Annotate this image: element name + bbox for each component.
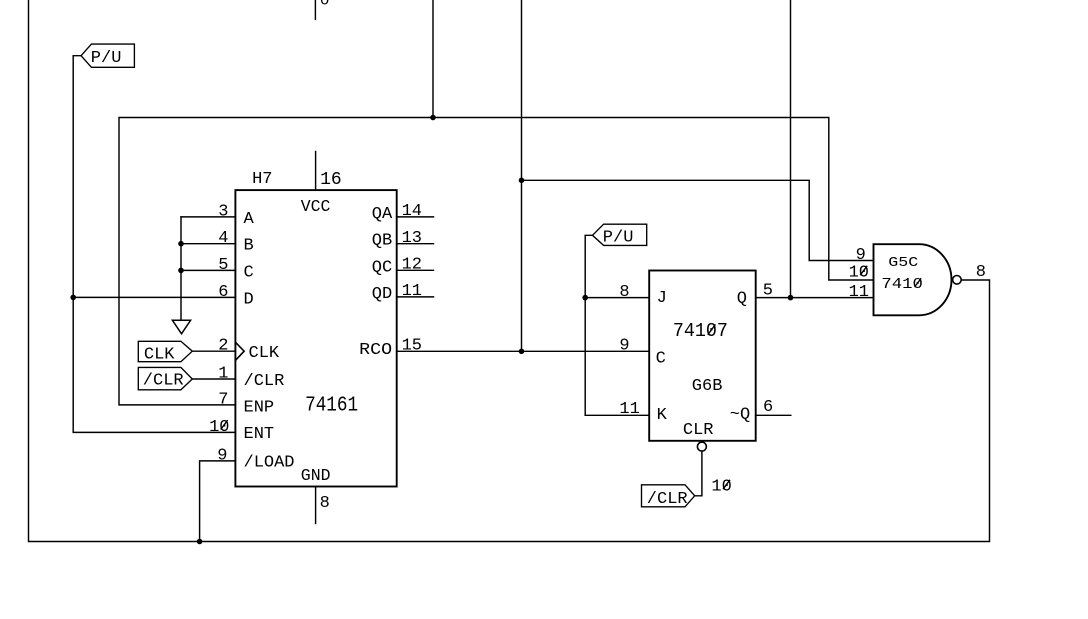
junction dot Q tap: [788, 295, 794, 301]
svg-text:G5C: G5C: [888, 255, 918, 271]
junction dot RCO: [519, 349, 525, 355]
svg-text:P/U: P/U: [603, 228, 634, 247]
svg-text:K: K: [657, 406, 668, 425]
junction dot LOAD rail: [197, 539, 203, 545]
svg-text:H7: H7: [252, 170, 272, 189]
U1 ENT pin 10 zero slash: [221, 420, 228, 429]
svg-text:QD: QD: [372, 285, 392, 304]
svg-text:GND: GND: [301, 466, 331, 485]
G5C zero slash: [915, 278, 922, 287]
svg-text:6: 6: [763, 398, 773, 417]
junction dot B tie: [178, 241, 184, 247]
wire QB pin 13: [397, 243, 434, 245]
svg-text:74161: 74161: [305, 394, 358, 417]
svg-text:12: 12: [402, 256, 422, 275]
wire GND pin 8: [315, 487, 317, 524]
svg-text:8: 8: [976, 263, 986, 282]
wire QD pin 11: [397, 296, 434, 298]
svg-text:8: 8: [320, 494, 330, 513]
wire P/U 2 net J and K: [585, 235, 592, 415]
svg-text:14: 14: [402, 202, 422, 221]
svg-text:6: 6: [218, 283, 228, 302]
flag P/U 2: [593, 224, 647, 245]
svg-text:C: C: [656, 350, 666, 369]
svg-text:15: 15: [402, 337, 422, 356]
svg-text:CLK: CLK: [249, 344, 280, 363]
junction dot C tie: [178, 268, 184, 274]
NAND output bubble: [953, 276, 962, 285]
wire A-B-C tie vertical: [180, 217, 182, 320]
U2 zero slash: [708, 324, 716, 334]
wire vertical to RCO net: [521, 0, 523, 351]
svg-text:11: 11: [402, 282, 422, 301]
G5C pin 10 zero slash: [860, 266, 867, 275]
wire P/U net to ENT: [73, 56, 235, 433]
wire /LOAD to bottom rail: [200, 461, 236, 542]
svg-text:QB: QB: [372, 232, 392, 251]
junction dot J tap: [582, 295, 588, 301]
wire QC pin 12: [397, 269, 434, 271]
wire VCC pin 16: [315, 152, 317, 191]
svg-text:A: A: [244, 210, 255, 229]
wire pin C: [181, 269, 235, 271]
wire /CLR flag to pin 1: [192, 378, 235, 380]
NAND gate G5C body: [874, 244, 952, 315]
svg-text:8: 8: [619, 283, 629, 302]
wire CLK flag to pin 2: [192, 350, 235, 352]
wire pin A: [181, 216, 235, 218]
wire RCO to C: [397, 350, 650, 352]
svg-text:B: B: [244, 237, 254, 256]
wire J pin 8: [585, 297, 649, 299]
svg-text:1: 1: [218, 365, 228, 384]
wire CLR pin to /CLR flag: [695, 451, 702, 496]
arrow off pin tie: [172, 320, 190, 334]
svg-text:P/U: P/U: [91, 49, 122, 68]
junction dot D tap: [70, 295, 76, 301]
svg-text:5: 5: [218, 256, 228, 275]
svg-text:9: 9: [217, 446, 227, 465]
junction dot H1: [430, 115, 436, 121]
svg-text:CLK: CLK: [144, 346, 175, 365]
flag /CLR 1: [138, 367, 192, 389]
svg-text:0: 0: [320, 0, 330, 9]
svg-text:G6B: G6B: [692, 377, 723, 396]
svg-text:/LOAD: /LOAD: [244, 453, 295, 472]
svg-text:/CLR: /CLR: [143, 372, 184, 391]
svg-text:11: 11: [849, 283, 869, 302]
IC U1 74161 box: [235, 190, 396, 486]
CLR inversion bubble: [697, 442, 706, 451]
svg-text:13: 13: [402, 229, 422, 248]
wire H1: ENP to NAND pin 10: [119, 118, 874, 405]
wire pin B: [181, 243, 235, 245]
wire H2: RCO riser to NAND pin 9: [522, 180, 874, 260]
U2 pin 10 zero slash: [723, 480, 730, 489]
svg-text:J: J: [657, 289, 667, 308]
svg-text:7: 7: [218, 390, 228, 409]
svg-text:5: 5: [763, 282, 773, 301]
svg-text:16: 16: [320, 170, 342, 190]
svg-text:9: 9: [619, 336, 629, 355]
svg-text:ENT: ENT: [244, 425, 275, 444]
svg-text:Q: Q: [737, 290, 747, 309]
wire left border + bottom + output 8 riser: [29, 0, 990, 542]
IC U2 74107 box: [649, 271, 756, 441]
svg-text:/CLR: /CLR: [647, 490, 688, 509]
clock wedge pin 2: [235, 342, 244, 360]
wire vertical to Q net: [790, 0, 792, 298]
svg-text:4: 4: [218, 229, 228, 248]
flag /CLR 2 bottom: [642, 485, 695, 507]
wire vertical into H1 junction: [432, 0, 434, 118]
svg-text:11: 11: [619, 400, 639, 419]
wire D pin: [73, 296, 235, 298]
wire K pin 11: [585, 414, 649, 416]
wire Q to NAND pin 11: [756, 297, 874, 299]
svg-text:RCO: RCO: [359, 341, 392, 360]
svg-text:QA: QA: [372, 205, 393, 224]
svg-text:/CLR: /CLR: [244, 372, 285, 391]
svg-text:ENP: ENP: [244, 398, 275, 417]
svg-text:QC: QC: [372, 258, 392, 277]
svg-text:VCC: VCC: [301, 197, 331, 216]
svg-text:D: D: [244, 290, 254, 309]
flag P/U 1: [81, 44, 134, 67]
svg-text:3: 3: [218, 202, 228, 221]
svg-text:CLR: CLR: [683, 421, 714, 440]
svg-text:74107: 74107: [673, 320, 728, 342]
flag CLK: [138, 341, 192, 361]
wire QA pin 14: [397, 216, 434, 218]
svg-text:C: C: [244, 263, 254, 282]
junction dot H2 riser: [519, 178, 525, 184]
wire ~Q pin 6 stub: [756, 414, 791, 416]
svg-text:2: 2: [218, 337, 228, 356]
wire top stub node 0: [314, 0, 316, 19]
svg-text:~Q: ~Q: [730, 405, 750, 424]
svg-text:9: 9: [856, 246, 866, 265]
